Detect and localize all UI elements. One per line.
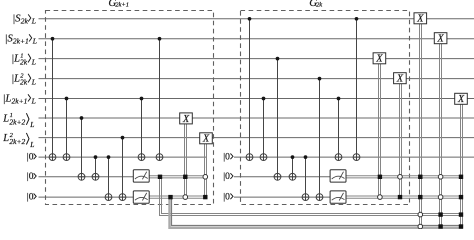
- classical vertical to X gate on L^2_2k: [399, 84, 401, 197]
- junction (connected) m4 row to X on L_2k+1: [459, 195, 463, 199]
- crossover (no connection) m4 row crossover at S_2k+1 line: [438, 195, 443, 200]
- svg-text:L: L: [31, 96, 36, 105]
- junction (connected) bus1 to X on S_2k+1: [438, 212, 442, 216]
- X gate on L^2_2k (classically controlled): [394, 73, 407, 85]
- svg-text:2k: 2k: [20, 77, 28, 86]
- junction (connected) m2 row to X on L^2_2k+2: [203, 195, 207, 199]
- CNOT g3: control L^1_2k+2, target a2: [78, 116, 85, 180]
- svg-text:L: L: [29, 140, 34, 149]
- label |L^1_2k>_L: [11, 53, 36, 67]
- wire L^1_2k+2> (qubit 6): [39, 117, 474, 119]
- label |0> ancilla a2 block1: [27, 172, 36, 182]
- classical vertical to X gate on L^1_2k: [378, 64, 380, 197]
- crossover (no connection) m1 row crossover: [203, 175, 208, 180]
- classical vertical to X gate on L_2k+1: [460, 104, 462, 227]
- svg-text:L: L: [31, 17, 36, 26]
- X gate on L^1_2k (classically controlled): [373, 53, 386, 65]
- classical vertical down from meter M2 row: [170, 197, 464, 228]
- CNOT g16: control S_2k, target b1: [353, 17, 360, 161]
- crossover (no connection) m4 row crossover: [378, 195, 383, 200]
- label |0> ancilla b3 block2: [223, 193, 233, 203]
- svg-text:X: X: [182, 114, 190, 125]
- dashed box G_2k+1: [46, 11, 214, 205]
- svg-text:|L: |L: [3, 93, 12, 104]
- svg-text:L: L: [31, 77, 36, 86]
- CNOT g7: control L_2k+1, target a1: [138, 97, 145, 161]
- wire |S_2k> (qubit 1): [39, 18, 474, 20]
- classical vertical to X gate on S_2k: [419, 24, 421, 228]
- label G_2k+1 (block 1 title): [108, 0, 129, 9]
- svg-text:2k: 2k: [20, 57, 28, 66]
- svg-text:2k+1: 2k+1: [12, 96, 28, 105]
- svg-text:X: X: [396, 74, 404, 85]
- classical vertical to X gate on L^1_2k+2: [184, 124, 186, 197]
- svg-text:X: X: [437, 34, 445, 45]
- junction (connected) m2 row to bus2 drop: [168, 195, 172, 199]
- CNOT g2: control L_2k+1, target a1: [63, 97, 70, 161]
- label G_2k (block 2 title): [309, 0, 322, 9]
- wire ancilla a1 |0> block1 (qubit 8): [39, 156, 208, 158]
- svg-text:|0: |0: [223, 153, 230, 163]
- svg-text:L: L: [32, 36, 37, 45]
- svg-text:|0: |0: [223, 193, 230, 203]
- CNOT g4: control a1, target a2: [92, 155, 99, 180]
- wire ancilla a2 |0> block1 (qubit 9): [39, 176, 134, 178]
- label L^1_2k+2>_L (big rangle): [2, 112, 34, 129]
- CNOT g9: control S_2k, target b1: [246, 17, 253, 161]
- svg-text:2k+1: 2k+1: [13, 36, 29, 45]
- CNOT g8: control S_2k+1, target a1: [156, 37, 163, 161]
- classical wire from meter M1 (row y=176.8): [149, 175, 206, 177]
- CNOT g14: control L^2_2k, target b3: [316, 77, 323, 201]
- classical vertical to X gate on S_2k+1: [439, 44, 441, 228]
- crossover (no connection) bus1 crossover at S_2k line: [418, 212, 423, 217]
- dashed box G_2k: [241, 11, 410, 205]
- wire |L_2k+1> (qubit 5): [39, 98, 474, 100]
- wire ancilla b2 |0> block2: [234, 176, 330, 178]
- classical vertical to X gate on L^2_2k+2: [204, 144, 206, 197]
- svg-text:|0: |0: [223, 172, 230, 182]
- junction (connected) m4 row to X on L^2_2k: [398, 195, 402, 199]
- junction (connected) m3 row to X on L^1_2k: [378, 175, 382, 179]
- svg-text:2k+1: 2k+1: [115, 1, 129, 8]
- meter M1 on ancilla a2: [133, 170, 149, 182]
- label L^2_2k+2>_L (big rangle): [2, 132, 34, 149]
- crossover (no connection) m3 row crossover: [398, 175, 403, 180]
- label |S_2k>_L: [12, 13, 36, 25]
- junction (connected) m1 row to bus1 drop: [158, 175, 162, 179]
- wire L^2_2k+2> (qubit 7): [39, 137, 474, 139]
- crossover (no connection) bus2 crossover at S_2k line: [418, 224, 423, 229]
- CNOT g5: control a1, target a3: [105, 155, 112, 200]
- svg-text:|0: |0: [27, 193, 34, 203]
- CNOT g1: control S_2k+1, target a1: [49, 37, 56, 161]
- crossover (no connection) m2 row crossover: [183, 195, 188, 200]
- wire |L^2_2k> (qubit 4): [39, 78, 474, 80]
- junction (connected) m3 row to X on S_2k: [418, 175, 422, 179]
- CNOT g6: control L^2_2k+2, target a3: [119, 136, 126, 201]
- label |L^2_2k>_L: [11, 73, 36, 87]
- svg-text:|L: |L: [11, 74, 20, 85]
- svg-text:L: L: [2, 133, 9, 144]
- label |S_2k+1>_L: [5, 33, 37, 45]
- svg-text:2k: 2k: [21, 17, 29, 26]
- X gate on L_2k+1 (classically controlled): [455, 93, 468, 105]
- svg-text:|L: |L: [11, 54, 20, 65]
- label |0> ancilla b2 block2: [223, 172, 233, 182]
- crossover (no connection) m3 row crossover at S_2k+1 line: [438, 175, 443, 180]
- CNOT g13: control b1, target b3: [302, 155, 309, 200]
- classical wire from meter M2 (row y=197.1): [149, 195, 206, 197]
- svg-text:|0: |0: [27, 172, 34, 182]
- X gate on S_2k+1 (classically controlled): [434, 33, 447, 45]
- junction (connected) bus1 to X on L_2k+1: [459, 212, 463, 216]
- label |L_2k+1>_L: [3, 93, 36, 105]
- wire ancilla b1 |0> block2: [234, 156, 474, 158]
- wire |L^1_2k> (qubit 3): [39, 58, 474, 60]
- meter M2 on ancilla a3: [133, 191, 149, 203]
- label |0> ancilla b1 block2: [223, 153, 233, 163]
- junction (connected) m4 row to X on S_2k: [418, 195, 422, 199]
- CNOT g15: control L_2k+1, target b1: [335, 97, 342, 161]
- junction (connected) m3 row to X on L_2k+1: [459, 175, 463, 179]
- CNOT g11: control L^1_2k, target b2: [274, 57, 281, 180]
- label |0> ancilla a3 block1: [27, 193, 36, 203]
- wire ancilla b3 |0> block2: [234, 196, 330, 198]
- wire |S_2k+1> (qubit 2): [39, 38, 474, 40]
- svg-text:2k: 2k: [316, 1, 322, 8]
- CNOT g12: control b1, target b2: [289, 155, 296, 180]
- X gate on S_2k (classically controlled): [414, 13, 427, 25]
- classical vertical down from meter M1 row: [160, 177, 464, 216]
- svg-text:2k+2: 2k+2: [9, 137, 25, 146]
- CNOT g10: control L_2k+1, target b1: [260, 97, 267, 161]
- junction (connected) bus2 to X on L_2k+1: [459, 224, 463, 228]
- junction (connected) m1 row to X on L^1_2k+2: [183, 175, 187, 179]
- svg-text:L: L: [31, 57, 36, 66]
- svg-text:X: X: [202, 134, 210, 145]
- svg-text:X: X: [457, 94, 465, 105]
- X gate on L^1_2k+2 (classically controlled): [180, 113, 193, 125]
- classical wire from meter M3 (row y=176.8): [346, 175, 463, 177]
- svg-text:X: X: [416, 14, 424, 25]
- classical wire from meter M4 (row y=197.1): [346, 195, 463, 197]
- svg-text:L: L: [2, 113, 9, 124]
- meter M4 on ancilla b3: [330, 191, 346, 203]
- svg-text:X: X: [375, 54, 383, 65]
- label |0> ancilla a1 block1: [27, 153, 36, 163]
- X gate on L^2_2k+2 (classically controlled): [200, 133, 213, 145]
- svg-text:|0: |0: [27, 153, 34, 163]
- wire ancilla a3 |0> block1 (qubit 10): [39, 196, 134, 198]
- meter M3 on ancilla b2: [330, 170, 346, 182]
- svg-text:L: L: [29, 120, 34, 129]
- svg-text:2k+2: 2k+2: [9, 117, 25, 126]
- junction (connected) bus2 to X on S_2k+1: [438, 224, 442, 228]
